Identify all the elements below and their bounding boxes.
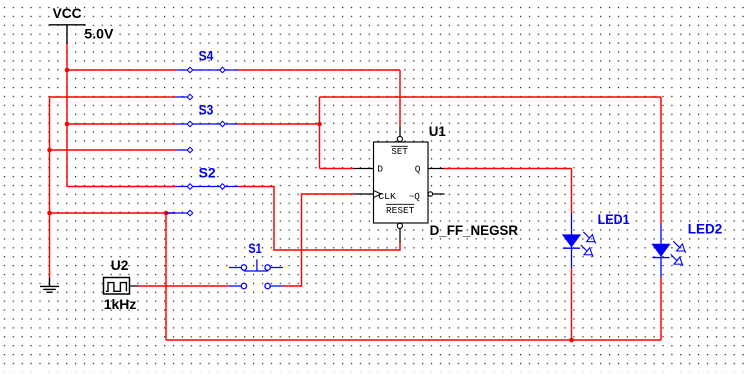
svg-text:LED2: LED2 <box>688 220 723 236</box>
wire VCC to S4 throw <box>67 69 176 71</box>
wire LED2 anode drop <box>660 97 662 225</box>
wire VCC corner to S2 throw <box>67 186 176 188</box>
LED2 <box>652 225 685 278</box>
flip-flop U1 <box>354 127 445 244</box>
node junction LED1 cathode/rail <box>569 338 574 343</box>
svg-text:5.0V: 5.0V <box>84 26 114 42</box>
svg-text:U1: U1 <box>429 123 446 139</box>
node junction S3/D <box>317 122 322 127</box>
node junction gnd/S2 throw <box>47 211 52 216</box>
svg-text:RESET: RESET <box>386 205 415 216</box>
wire S2 pole to RESET <box>238 187 400 251</box>
wire bottom rail <box>166 339 661 341</box>
node junction gnd/S3 throw <box>47 148 52 153</box>
wire D node to LED2 top <box>320 96 662 98</box>
svg-text:1kHz: 1kHz <box>104 296 137 312</box>
wire gnd to S3 lower throw <box>50 149 176 151</box>
wire VCC to S3 throw <box>67 123 176 125</box>
svg-text:S4: S4 <box>199 48 214 64</box>
wire D riser <box>319 97 321 169</box>
wire cathode return drop <box>165 213 167 340</box>
LED1 <box>563 213 596 268</box>
svg-text:U2: U2 <box>111 257 129 273</box>
pin Q stub <box>428 168 444 170</box>
wire LED1 cathode drop <box>571 268 573 340</box>
wire SET drop <box>399 70 401 127</box>
node junction cathode return <box>164 211 169 216</box>
node junction VCC/S3 <box>65 122 70 127</box>
svg-text:Q: Q <box>415 164 421 175</box>
switch S1 <box>229 259 284 288</box>
power VCC symbol <box>49 25 86 44</box>
wire S4 pole to SET <box>238 69 400 71</box>
svg-text:S3: S3 <box>199 102 214 118</box>
ground symbol <box>40 278 59 293</box>
svg-text:S1: S1 <box>248 240 261 256</box>
svg-text:D_FF_NEGSR: D_FF_NEGSR <box>430 222 518 238</box>
wire LED1 anode drop <box>571 169 573 214</box>
svg-text:VCC: VCC <box>53 5 82 21</box>
pin RESET bubble <box>397 223 402 228</box>
wire to D pin <box>320 168 354 170</box>
wire LED2 cathode drop <box>660 277 662 340</box>
wire S3 pole to D node <box>238 123 320 125</box>
svg-text:~Q: ~Q <box>409 191 420 202</box>
node junction VCC/S4 <box>65 68 70 73</box>
pin D stub <box>354 168 374 170</box>
pin ~Q bubble and stub <box>428 192 432 196</box>
pin SET bubble <box>397 136 402 141</box>
wire U2 to S1 <box>139 285 229 287</box>
svg-text:CLK: CLK <box>378 191 396 202</box>
pin CLK stub <box>354 193 374 195</box>
wire gnd to S2 lower throw <box>50 212 176 214</box>
switch S4 <box>176 67 239 100</box>
pin CLK chevron <box>374 190 382 197</box>
svg-text:S2: S2 <box>199 164 216 180</box>
clock source U2 <box>104 278 139 295</box>
svg-text:SET: SET <box>391 146 408 157</box>
svg-text:LED1: LED1 <box>598 211 630 227</box>
switch S3 <box>176 121 239 153</box>
switch S2 <box>166 184 238 216</box>
wire VCC vertical rail <box>66 44 68 187</box>
wire Q to LED1 <box>444 168 572 170</box>
wire ground branch top corner <box>50 97 176 278</box>
svg-text:D: D <box>377 164 383 175</box>
wire S1 to CLK <box>283 194 354 286</box>
